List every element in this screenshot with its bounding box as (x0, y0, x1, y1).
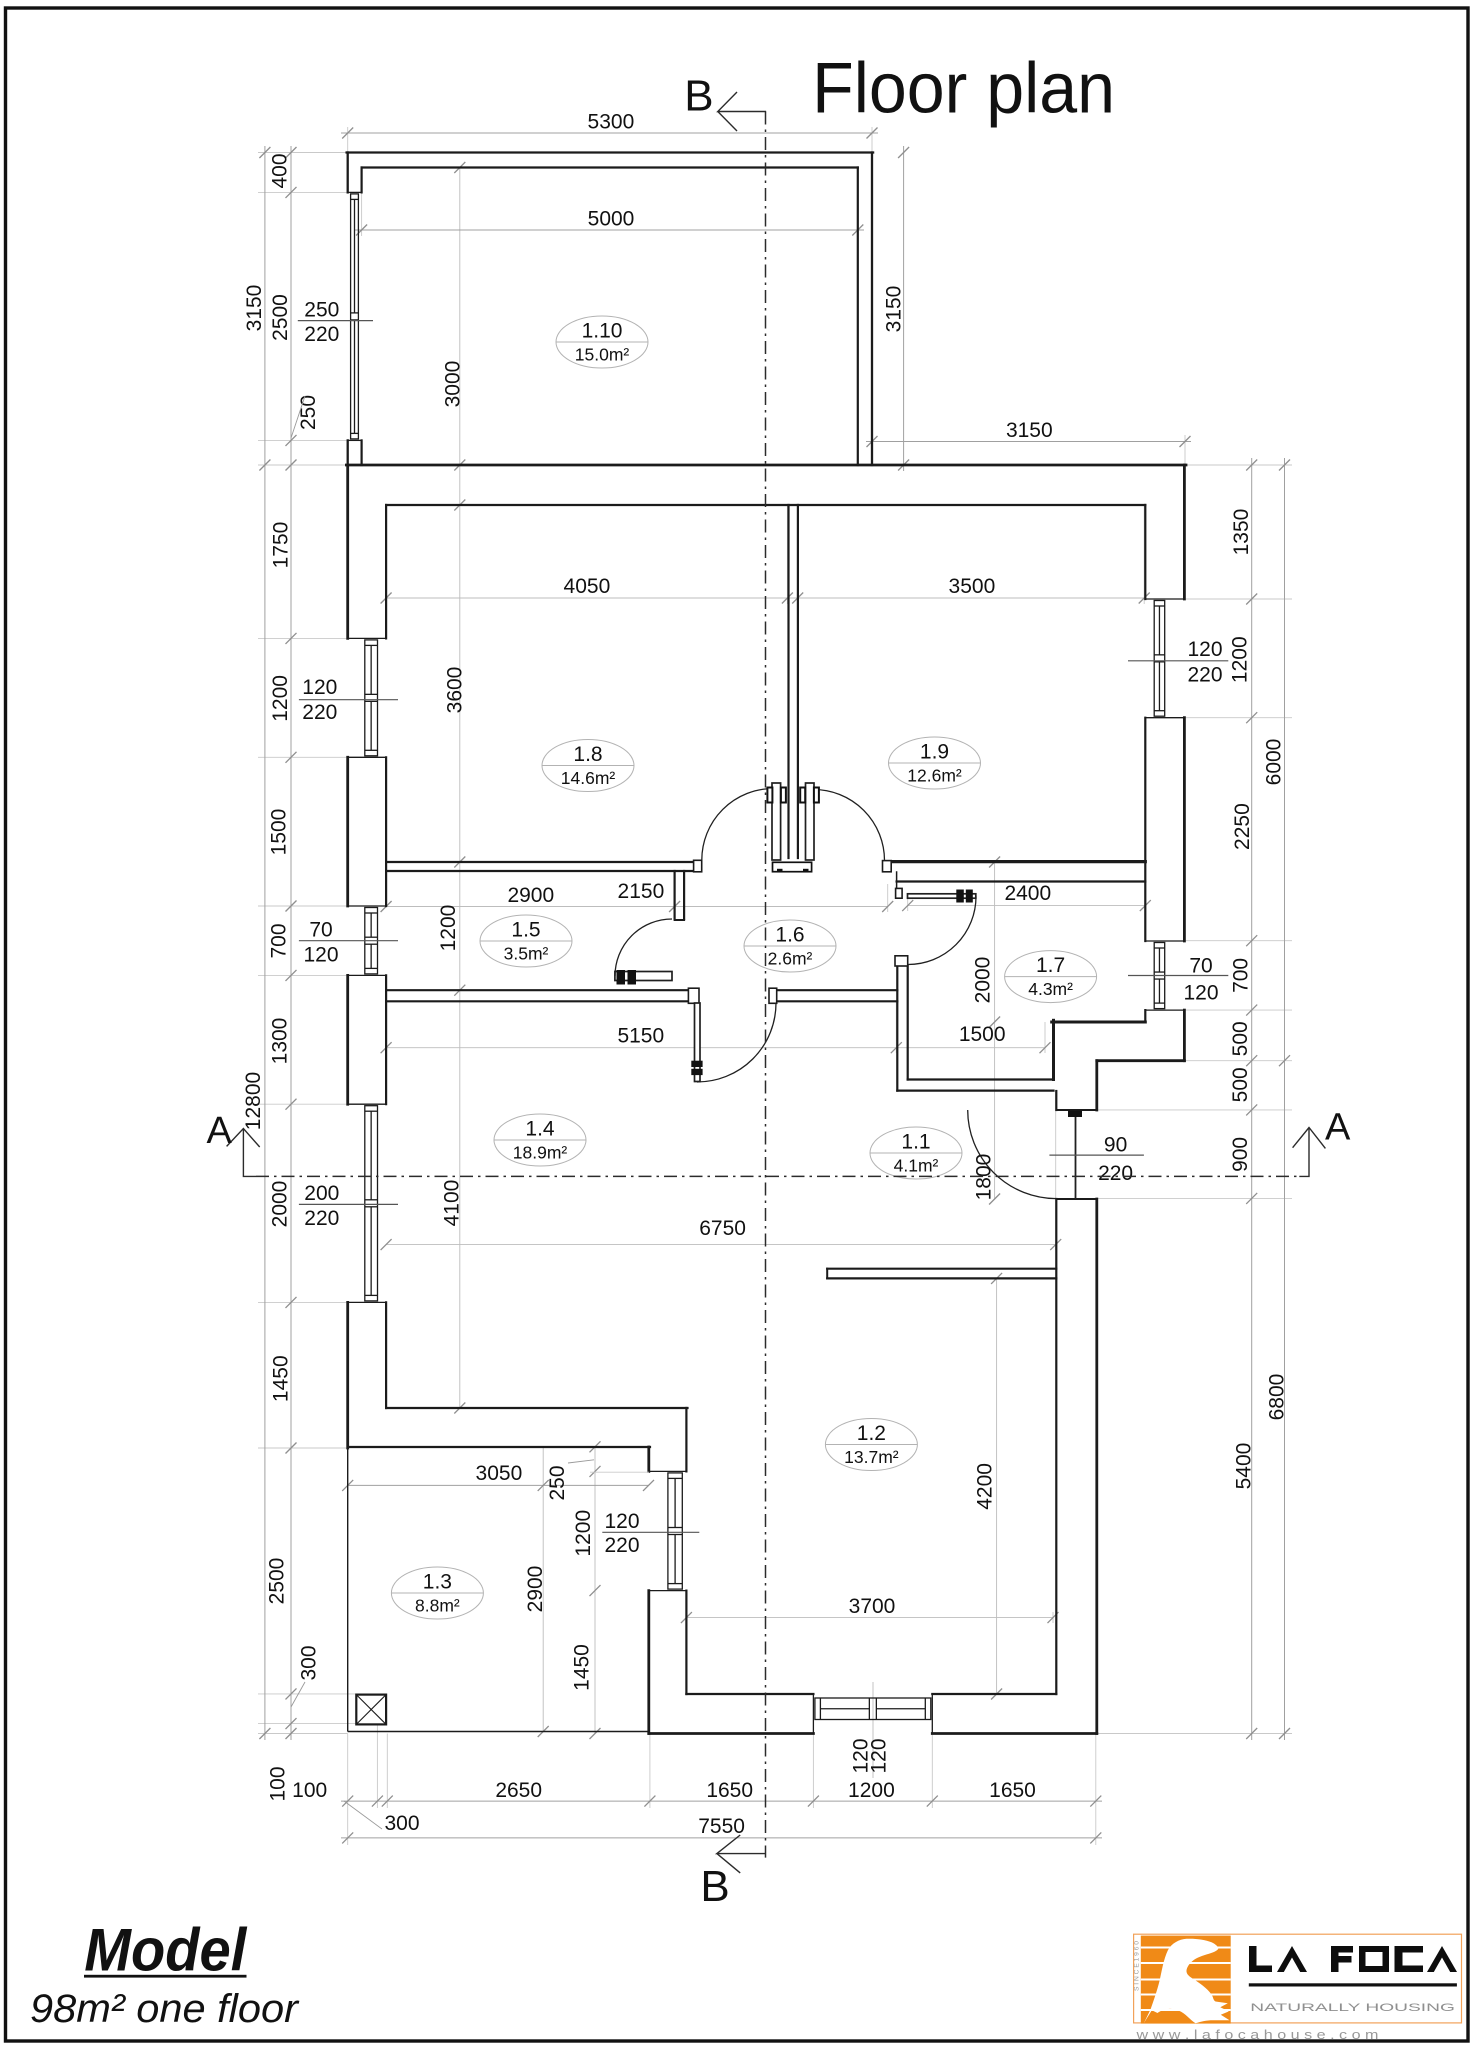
svg-text:200: 200 (304, 1182, 339, 1205)
kitchen bar wall bottom face (827, 1277, 1056, 1279)
section line A-A (horizontal dash-dot) (256, 1175, 1299, 1177)
INTERIOR PARTITIONS (386, 505, 1145, 1278)
interior dimension grid lines (386, 168, 1145, 1779)
svg-text:1.5: 1.5 (511, 919, 540, 942)
svg-text:2.6m²: 2.6m² (768, 949, 813, 969)
wall: main top outer face (346, 464, 1186, 467)
svg-text:18.9m²: 18.9m² (513, 1143, 568, 1163)
svg-text:1.3: 1.3 (423, 1571, 452, 1594)
svg-text:3000: 3000 (441, 361, 464, 408)
door 1.4 (leaf + swing arc) (695, 1003, 701, 1082)
svg-text:2000: 2000 (269, 1181, 292, 1228)
front door opening bottom cap (1056, 1198, 1097, 1200)
svg-text:120: 120 (604, 1510, 639, 1533)
svg-text:3700: 3700 (849, 1595, 896, 1618)
wall hall/1.1 face B (777, 1000, 898, 1002)
svg-text:400: 400 (269, 153, 292, 188)
room label 1.4 (494, 1114, 586, 1166)
svg-text:900: 900 (1229, 1137, 1252, 1172)
svg-text:B: B (684, 72, 713, 121)
svg-text:Model: Model (84, 1916, 247, 1984)
window 1.8 left (1200) (348, 638, 386, 757)
door 1.9 (leaf + swing arc) (814, 790, 885, 861)
svg-text:120: 120 (1187, 638, 1222, 661)
svg-text:5000: 5000 (588, 208, 635, 231)
svg-text:120: 120 (867, 1738, 890, 1773)
wall hall/1.1 face A (777, 989, 898, 991)
svg-text:250: 250 (297, 395, 320, 430)
svg-text:2900: 2900 (524, 1566, 547, 1613)
jamb: door 1.7 bottom (895, 956, 908, 966)
svg-text:NATURALLY HOUSING: NATURALLY HOUSING (1250, 2002, 1455, 2014)
svg-text:700: 700 (1230, 958, 1253, 993)
wall: porch 1.10 top outer (347, 151, 874, 153)
svg-text:B: B (700, 1862, 729, 1911)
terrace 1.3 left edge (347, 1448, 349, 1732)
room label 1.2 (825, 1419, 917, 1471)
wall 1.5 bottom / 1.4 top face B (386, 1000, 688, 1002)
wall: 1.3/1.2 outer face (window gap) (647, 1447, 650, 1471)
svg-text:Floor plan: Floor plan (812, 49, 1115, 128)
svg-text:3050: 3050 (476, 1462, 523, 1485)
svg-text:1500: 1500 (268, 809, 291, 856)
LA FOCA logo (1134, 1934, 1462, 2042)
svg-text:250: 250 (304, 299, 339, 322)
jamb: door 1.4 left (688, 988, 699, 1003)
svg-text:2500: 2500 (269, 294, 292, 341)
svg-text:1.10: 1.10 (582, 320, 623, 343)
svg-text:220: 220 (604, 1534, 639, 1557)
svg-text:2500: 2500 (266, 1558, 289, 1605)
svg-text:1200: 1200 (572, 1510, 595, 1557)
wall: porch 1.10 right outer (871, 153, 873, 466)
door 1.5 (leaf + swing arc) (615, 972, 672, 981)
wall: main top inner face (386, 504, 1145, 506)
svg-text:14.6m²: 14.6m² (561, 768, 616, 788)
svg-text:1500: 1500 (959, 1023, 1006, 1046)
model underline (84, 1975, 247, 1978)
svg-text:8.8m²: 8.8m² (415, 1596, 460, 1616)
window 1.9 right (1200) (1145, 599, 1184, 718)
svg-text:1650: 1650 (989, 1779, 1036, 1802)
small leader lines (291, 396, 305, 438)
svg-text:1.8: 1.8 (573, 743, 602, 766)
wall: bottom inner face (686, 1693, 813, 1695)
svg-text:1450: 1450 (570, 1644, 593, 1691)
wall: left exterior inner face (385, 505, 387, 638)
wall: room 1.3 top face (348, 1446, 650, 1448)
svg-text:98m² one floor: 98m² one floor (30, 1987, 300, 2031)
wall 1.5 bottom / 1.4 top face A (386, 989, 688, 991)
EXTERIOR WALLS (346, 465, 1186, 1734)
svg-text:3600: 3600 (443, 667, 466, 714)
wall: right jog outer face (1097, 1059, 1185, 1062)
LA FOCA letters (1249, 1946, 1457, 1972)
window 1.2 bottom (1200) (813, 1694, 932, 1734)
svg-text:120: 120 (303, 944, 338, 967)
logo border box (1134, 1934, 1462, 2023)
svg-text:500: 500 (1229, 1021, 1252, 1056)
svg-text:3500: 3500 (949, 575, 996, 598)
svg-text:1350: 1350 (1230, 509, 1253, 556)
wall: room 1.4 bottom face (386, 1407, 687, 1409)
front door hinge block (1068, 1111, 1082, 1118)
closet wall top face (908, 1078, 1054, 1080)
svg-text:1750: 1750 (269, 522, 292, 569)
seal silhouette (1144, 1939, 1230, 2024)
svg-text:1.9: 1.9 (920, 741, 949, 764)
svg-text:300: 300 (384, 1812, 419, 1835)
wall: right exterior outer face (1183, 465, 1186, 599)
terrace 1.3 bottom edge (348, 1731, 649, 1733)
svg-text:90: 90 (1104, 1134, 1127, 1157)
room label 1.5 (480, 915, 572, 967)
partition 1.8/1.5 top face (386, 861, 693, 863)
wall: porch 1.10 top inner (362, 166, 858, 168)
svg-text:12800: 12800 (242, 1072, 265, 1130)
svg-text:6750: 6750 (699, 1217, 746, 1240)
svg-text:1300: 1300 (269, 1018, 292, 1065)
room label 1.1 (870, 1127, 962, 1179)
partition 1.8/1.9 left face (787, 505, 789, 858)
svg-text:1.1: 1.1 (901, 1131, 930, 1154)
section arrow B bottom (717, 1835, 766, 1873)
svg-text:A: A (207, 1110, 233, 1152)
front door leaf (1075, 1110, 1077, 1199)
window porch 1.10 left (2500) (348, 192, 362, 440)
svg-text:2900: 2900 (507, 884, 554, 907)
wall: left exterior outer face (with window gaps) (346, 465, 349, 638)
svg-text:3.5m²: 3.5m² (504, 944, 549, 964)
door 1.8 (leaf + swing arc) (702, 789, 774, 861)
svg-text:300: 300 (298, 1645, 321, 1680)
partition 1.8/1.9 right face (797, 505, 799, 858)
svg-text:4200: 4200 (973, 1463, 996, 1510)
svg-text:220: 220 (304, 323, 339, 346)
window 1.4 left (2000) (348, 1104, 386, 1302)
wall: lower right outer face (door gap) (1095, 1061, 1098, 1110)
svg-text:120: 120 (302, 676, 337, 699)
partition 1.5/1.6 left face (673, 871, 675, 919)
room label 1.9 (889, 737, 981, 789)
dimension chain lines (265, 133, 1285, 1838)
svg-text:1.6: 1.6 (775, 924, 804, 947)
jamb: door 1.9 (883, 861, 892, 872)
svg-text:2150: 2150 (618, 880, 665, 903)
svg-text:70: 70 (1189, 955, 1212, 978)
svg-text:3150: 3150 (243, 285, 266, 332)
svg-text:700: 700 (268, 923, 291, 958)
front door opening top cap (1056, 1109, 1097, 1111)
svg-text:6800: 6800 (1266, 1374, 1289, 1421)
window 1.5 left (700) (348, 906, 386, 975)
svg-text:5300: 5300 (588, 111, 635, 134)
svg-text:4.1m²: 4.1m² (894, 1156, 939, 1176)
jamb: door 1.8 (694, 860, 702, 872)
svg-text:500: 500 (1229, 1067, 1252, 1102)
closet wall bottom face (897, 1089, 1053, 1091)
section arrow A right (1293, 1128, 1326, 1177)
svg-text:220: 220 (1187, 664, 1222, 687)
wall: 1.3/1.2 inner face (685, 1408, 687, 1471)
svg-text:100: 100 (267, 1766, 290, 1801)
svg-text:250: 250 (546, 1465, 569, 1500)
svg-text:4.3m²: 4.3m² (1028, 979, 1073, 999)
room label 1.8 (542, 740, 634, 792)
svg-text:A: A (1325, 1106, 1351, 1148)
section arrow A left (227, 1129, 260, 1177)
svg-text:2650: 2650 (495, 1779, 542, 1802)
jamb: door 1.7 top (896, 888, 903, 898)
wall: porch 1.10 right inner (857, 168, 859, 466)
svg-text:S I N C E 1 9 6 0: S I N C E 1 9 6 0 (1134, 1940, 1141, 1991)
column diagonals (356, 1695, 386, 1725)
partition 1.8/1.5 bottom face (386, 870, 693, 872)
svg-text:2400: 2400 (1004, 882, 1051, 905)
svg-text:12.6m²: 12.6m² (907, 766, 962, 786)
logo stripes (1141, 1948, 1231, 2011)
svg-text:3150: 3150 (883, 286, 906, 333)
jamb: door 1.4 right (769, 988, 777, 1003)
jamb connector (896, 872, 898, 888)
dimension ticks (259, 128, 1290, 1844)
svg-text:7550: 7550 (698, 1815, 745, 1838)
room label 1.6 (744, 920, 836, 972)
svg-text:220: 220 (302, 701, 337, 724)
svg-text:2250: 2250 (1231, 803, 1254, 850)
wall: right exterior inner face (1144, 505, 1146, 599)
partition 1.9/1.7 top face (891, 860, 1145, 863)
extension lines (258, 127, 1292, 1845)
wall 1.6/1.1 left face (896, 966, 898, 1091)
section arrow B top (718, 92, 766, 131)
svg-text:1.4: 1.4 (525, 1118, 555, 1141)
svg-text:120: 120 (1183, 982, 1218, 1005)
column 300x300 at terrace (356, 1695, 386, 1725)
svg-text:100: 100 (292, 1779, 327, 1802)
svg-text:3150: 3150 (1006, 419, 1053, 442)
kitchen bar end cap (826, 1269, 828, 1279)
PORCH 1.10 WALLS (347, 153, 874, 466)
svg-text:4100: 4100 (440, 1180, 463, 1227)
svg-text:1200: 1200 (1228, 636, 1251, 683)
svg-text:1200: 1200 (269, 675, 292, 722)
room label 1.10 (556, 316, 648, 368)
wall: bottom outer face (window gap) (649, 1732, 814, 1735)
svg-text:13.7m²: 13.7m² (844, 1447, 899, 1467)
window 1.7 right (700) (1145, 941, 1184, 1010)
svg-text:220: 220 (1098, 1162, 1133, 1185)
svg-text:15.0m²: 15.0m² (575, 345, 630, 365)
logo orange square (1141, 1936, 1231, 2024)
svg-text:1200: 1200 (848, 1779, 895, 1802)
svg-text:4050: 4050 (564, 575, 611, 598)
svg-text:2000: 2000 (972, 957, 995, 1004)
room label 1.3 (391, 1567, 483, 1619)
partition 1.5/1.6 end cap (675, 919, 685, 921)
svg-text:1.2: 1.2 (857, 1422, 886, 1445)
room 1.7 bottom wall (1052, 1021, 1146, 1024)
svg-text:5400: 5400 (1233, 1443, 1256, 1490)
partition 1.5/1.6 right face (683, 871, 685, 919)
wall: porch 1.10 left inner (361, 168, 363, 193)
svg-text:5150: 5150 (617, 1025, 664, 1048)
svg-text:6000: 6000 (1262, 739, 1285, 786)
partition 1.9/1.7 bottom face (897, 880, 1146, 882)
wall: lower right inner face (1055, 1091, 1057, 1110)
svg-text:1.7: 1.7 (1036, 954, 1065, 977)
svg-text:1200: 1200 (437, 905, 460, 952)
logo underline (1249, 1983, 1457, 1986)
window 1.2 left (1200) (649, 1471, 687, 1590)
door 1.7 (leaf + swing arc) (908, 894, 976, 898)
room label 1.7 (1005, 951, 1097, 1003)
svg-text:1650: 1650 (706, 1779, 753, 1802)
room 1.7 step wall (1052, 1020, 1055, 1079)
svg-text:1450: 1450 (269, 1355, 292, 1402)
svg-text:70: 70 (309, 919, 332, 942)
section line B-B (vertical dash-dot) (765, 112, 767, 1858)
svg-text:220: 220 (304, 1207, 339, 1230)
central door sill cap (773, 862, 812, 871)
kitchen bar wall top face (827, 1268, 1056, 1270)
wall: porch 1.10 left outer (window gap) (347, 153, 349, 193)
wall 1.6/1.1 right face (907, 966, 909, 1080)
